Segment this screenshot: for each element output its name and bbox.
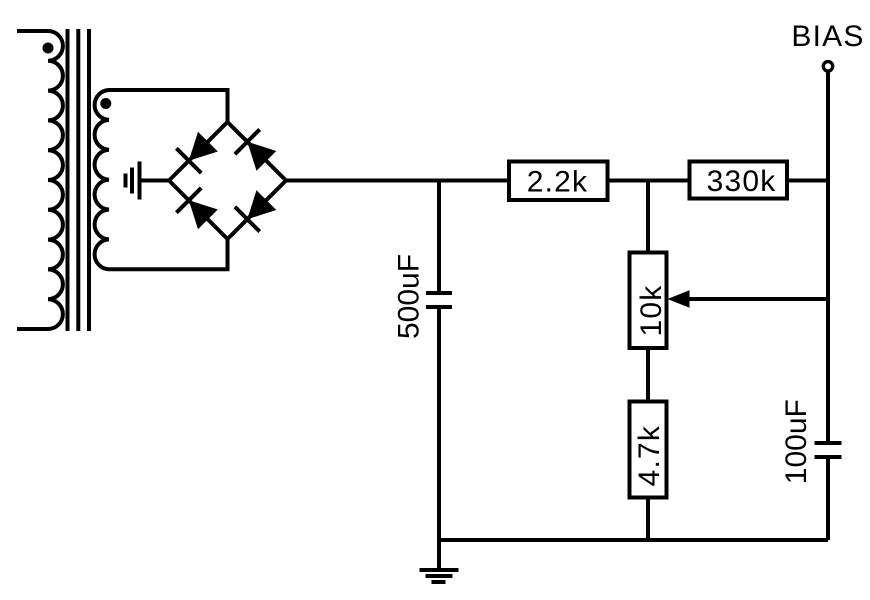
BIAS terminal: [823, 62, 833, 72]
wire BIAS terminal down to output node: [826, 71, 830, 181]
transformer T1 secondary winding: [95, 90, 228, 269]
svg-text:330k: 330k: [707, 165, 777, 198]
potentiometer R3 wiper arrow: [668, 290, 829, 307]
ground (bridge reference): [126, 162, 140, 200]
resistor R4: [630, 402, 667, 498]
svg-text:10k: 10k: [635, 285, 668, 337]
wire R1 to R2: [608, 179, 691, 183]
wire output node down to C2 top plate: [826, 181, 830, 444]
capacitor C1: [426, 293, 452, 307]
wire C1 bottom plate to ground rail: [437, 307, 441, 540]
wire C2 bottom plate to ground rail: [826, 457, 830, 540]
wire bridge left node to ground: [140, 179, 169, 183]
wire bridge output node to R1: [286, 179, 509, 183]
svg-text:500uF: 500uF: [393, 254, 426, 339]
wire rail to ground symbol: [437, 540, 441, 570]
resistor R2: [690, 162, 788, 199]
diode D1 (bridge top-left, cathode to left node): [169, 122, 228, 181]
transformer T1 core: [68, 29, 90, 331]
svg-text:BIAS: BIAS: [791, 20, 864, 53]
potentiometer R3 body: [630, 253, 668, 349]
transformer T1 primary phasing dot: [43, 43, 54, 54]
svg-text:4.7k: 4.7k: [633, 425, 666, 487]
ground rail wire: [439, 538, 828, 542]
wire node to C1 top plate: [437, 181, 441, 294]
diode D2 (bridge top-right, cathode to top node): [228, 122, 287, 181]
wire R2 to BIAS line: [787, 179, 828, 183]
resistor R1: [509, 162, 608, 201]
diode D3 (bridge bottom-left, cathode to left node): [169, 181, 228, 240]
transformer T1 primary winding: [17, 31, 63, 329]
svg-text:2.2k: 2.2k: [527, 166, 589, 199]
capacitor C2: [815, 443, 842, 457]
wire R3 to R4: [646, 348, 650, 402]
diode D4 (bridge bottom-right, cathode to bottom node): [228, 181, 287, 240]
wire junction down to potentiometer R3: [646, 181, 650, 253]
svg-text:100uF: 100uF: [780, 399, 813, 484]
wire R4 to ground rail: [646, 498, 650, 541]
transformer T1 secondary phasing dot: [100, 98, 111, 109]
ground (bottom): [420, 570, 459, 582]
